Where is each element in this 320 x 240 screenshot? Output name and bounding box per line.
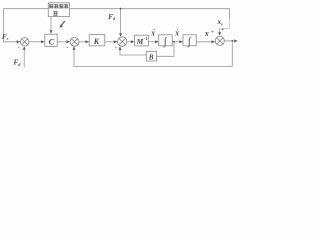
wire Minv to int1 bbox=[148, 41, 158, 43]
svg-text:C: C bbox=[49, 37, 55, 47]
wire B output to sum3 bbox=[120, 47, 146, 55]
arrow into sum4 left bbox=[212, 40, 216, 43]
arrow into sum3 bottom bbox=[119, 46, 122, 50]
svg-text:M: M bbox=[136, 37, 144, 46]
svg-text:+: + bbox=[211, 29, 214, 35]
svg-text:X: X bbox=[204, 31, 210, 38]
summing junction 3 bbox=[118, 37, 127, 46]
arrow into sum1 bottom bbox=[23, 46, 26, 50]
arrow into Minv left bbox=[131, 40, 135, 43]
arrow into K left bbox=[85, 40, 89, 43]
svg-text:K: K bbox=[93, 37, 100, 46]
arrow into int2 left bbox=[179, 40, 183, 43]
block B bbox=[146, 51, 156, 61]
svg-text:··: ·· bbox=[152, 29, 156, 34]
block M^-1 bbox=[135, 35, 149, 46]
arrow into sum4 top bbox=[218, 32, 221, 36]
wire C to sum2 bbox=[57, 41, 69, 43]
svg-text:-: - bbox=[18, 46, 20, 52]
summing junction 2 bbox=[70, 37, 79, 46]
svg-text:-: - bbox=[66, 45, 68, 51]
wire sum4 output bbox=[224, 40, 236, 42]
svg-text:+: + bbox=[221, 27, 224, 33]
arrow diag tip bbox=[60, 24, 64, 28]
wire int1 to int2 bbox=[172, 41, 182, 43]
junction dot rail Fd bbox=[120, 8, 122, 10]
wire top rail right bbox=[70, 9, 230, 18]
arrow into int1 left bbox=[155, 40, 159, 43]
summing junction 4 bbox=[215, 36, 224, 45]
arrow into C top bbox=[50, 30, 53, 34]
wire sum1 to C bbox=[29, 41, 44, 43]
junction dot velocity tap bbox=[173, 41, 175, 43]
arrow output right bbox=[234, 39, 238, 42]
block signal box top bbox=[48, 3, 69, 17]
summing junction 1 bbox=[21, 38, 29, 46]
wire Fd input below sum1 bbox=[23, 47, 25, 68]
block integrator 1 bbox=[159, 35, 173, 48]
arrow into sum3 left bbox=[114, 40, 118, 43]
arrow into sum1 left bbox=[17, 40, 21, 43]
wire K to sum3 bbox=[105, 41, 117, 43]
wire int2 to sum4 bbox=[196, 41, 215, 43]
arrow into C left bbox=[41, 40, 45, 43]
arrow into sum3 top bbox=[119, 33, 122, 37]
svg-text:-: - bbox=[115, 46, 117, 52]
block K bbox=[89, 35, 105, 47]
wire Fd drop into sum3 bbox=[120, 9, 122, 37]
junction dot output tap bbox=[231, 40, 233, 42]
arrow into sum2 left bbox=[66, 40, 70, 43]
block integrator 2 bbox=[183, 35, 196, 48]
wire diagonal arrow bbox=[61, 21, 65, 26]
wire sum2 to K bbox=[79, 41, 89, 43]
block C bbox=[45, 34, 57, 46]
wire top rail left bbox=[4, 9, 49, 42]
arrowheads bbox=[17, 8, 238, 50]
arrow into sum2 bottom bbox=[73, 46, 76, 50]
svg-text:B: B bbox=[148, 53, 154, 61]
wire box-to-C drop bbox=[50, 17, 52, 33]
wire output tap down bbox=[74, 41, 232, 67]
wire sum3 to Minv bbox=[127, 41, 134, 43]
wire B tap from velocity line bbox=[157, 42, 175, 57]
